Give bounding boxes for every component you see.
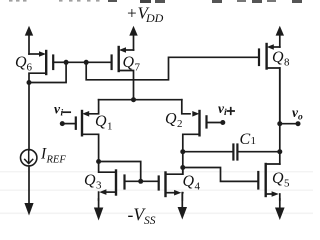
wire: IREF branch [28,83,30,151]
transistor Q4 (NMOS, gate left) [159,168,183,201]
label vo [292,105,303,122]
svg-text:i: i [224,108,227,118]
VDD arrow left (Q6 source) [28,35,30,54]
node: gate bus tap to Q8 [84,60,89,65]
VSS arrow (IREF) [24,203,33,216]
svg-text:C: C [240,131,251,148]
transistor Q3 (NMOS, gate right) [99,162,125,201]
cut-off text fragments top edge [9,0,302,3]
VSS arrow (Q4) [178,207,187,220]
svg-text:1: 1 [107,121,113,133]
output terminal vo [296,121,301,126]
svg-text:Q: Q [15,54,27,71]
label Q6 [15,54,33,74]
wire: Q7 drain to diff-pair sources [99,99,182,101]
svg-text:Q: Q [165,111,177,128]
svg-text:Q: Q [95,113,107,130]
capacitor C1 [183,145,280,160]
transistor Q5 (NMOS, gate left) [258,164,280,200]
label Q5 [272,170,290,190]
wire: Q8 drain / output column [279,68,281,164]
svg-text:2: 2 [177,118,183,130]
node: Q1 drain / Q3 drain [96,159,101,164]
transistor Q6 (PMOS, diode-connected) [29,51,66,83]
svg-text:SS: SS [144,215,156,227]
wire: to Q5 gate [183,168,258,182]
label +VDD [126,4,164,26]
label Q2 [165,111,183,131]
label IREF [40,146,66,166]
transistor Q8 (PMOS) [259,44,280,124]
transistor Q7 (PMOS) [112,47,134,100]
label -VSS [128,205,156,228]
VSS arrow (Q5) [275,208,285,221]
label Q8 [272,49,290,69]
node: tail current junction [131,97,136,102]
svg-text:o: o [298,112,303,122]
label Q4 [183,173,201,193]
node: Q6 drain [27,80,32,85]
VDD arrow right (Q8 source) [279,35,281,47]
svg-text:Q: Q [123,54,135,71]
wire: IREF to VSS [28,166,30,204]
wire: gate bus to Q8 gate [86,57,259,80]
wire: gate junction to Q4 gate [141,180,159,182]
wire: Q6 gate to Q7 gate [66,61,112,63]
wire: gate junction to Q3 gate [125,180,141,182]
label Q1 [95,113,113,133]
svg-text:4: 4 [195,181,201,193]
svg-text:Q: Q [272,170,284,187]
svg-text:Q: Q [272,49,284,66]
label C1 [240,131,257,148]
svg-text:1: 1 [251,135,257,147]
svg-text:Q: Q [183,173,195,190]
svg-text:5: 5 [284,178,290,190]
wire: to vo terminal [280,123,298,125]
transistor Q1 (PMOS, gate left) [62,100,98,162]
current source IREF [21,150,37,166]
node: Q6 gate-drain junction [64,60,69,65]
node: branch to Q5 gate [180,165,185,170]
svg-text:7: 7 [135,62,141,74]
wire: Q6 diode connection [29,62,66,82]
node: Q3/Q4 gate junction [138,179,143,184]
VSS arrow (Q3) [94,208,103,221]
transistor Q2 (PMOS, gate right) [182,100,223,175]
VDD arrow middle (Q7 source) [133,35,135,50]
svg-text:REF: REF [46,155,67,166]
input terminal vi+ [220,120,225,125]
svg-text:8: 8 [284,57,290,69]
svg-text:DD: DD [145,11,164,25]
svg-text:6: 6 [27,62,33,74]
label Q3 [84,172,102,192]
node: Q2/Q4 drain to C1 [180,149,185,154]
svg-text:Q: Q [84,172,96,189]
wire: Q3 diode connection [99,162,141,182]
node: C1 to output line [277,149,282,154]
label vi+ [218,101,227,118]
label Q7 [123,54,141,74]
svg-text:3: 3 [96,180,102,192]
input terminal vi- [60,121,65,126]
svg-text:i: i [61,109,64,119]
label vi- [54,102,64,119]
node: output junction [277,121,282,126]
